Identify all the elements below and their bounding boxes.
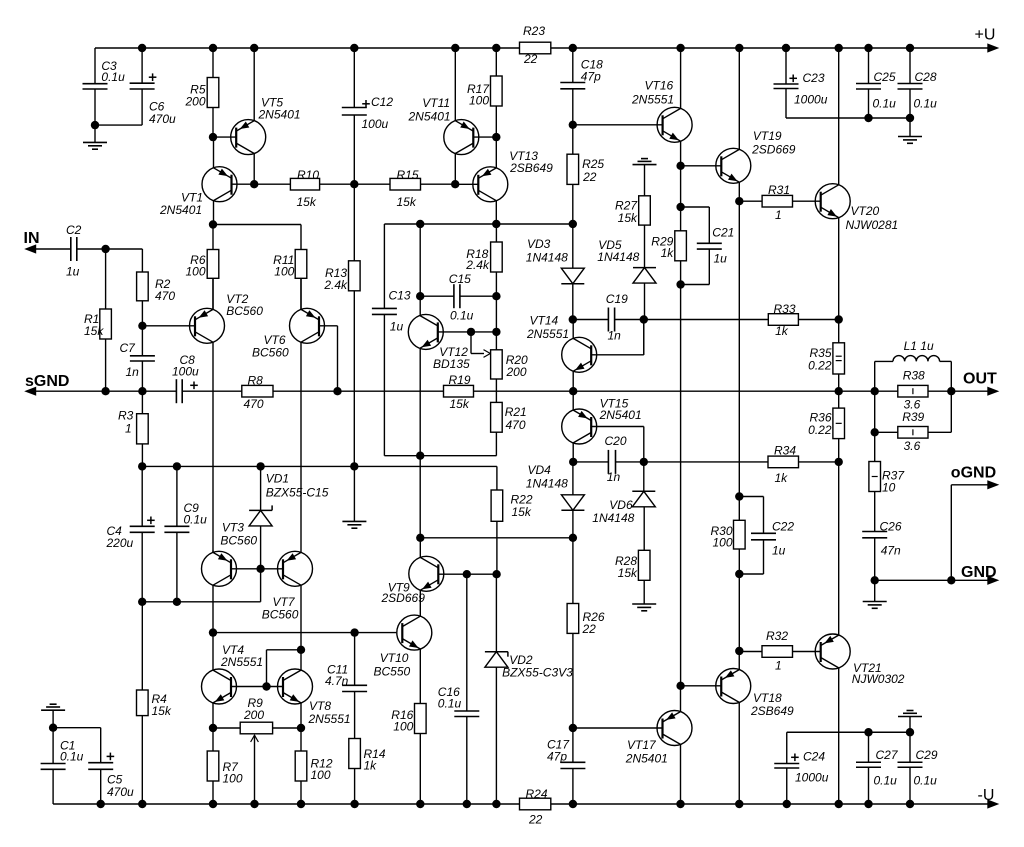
- svg-text:200: 200: [506, 365, 527, 379]
- resistor R8: [242, 374, 273, 412]
- wire VT8 base: [267, 686, 284, 688]
- wire lower mirror line: [213, 632, 396, 634]
- wire VT15 collector down: [572, 443, 574, 462]
- wire R26 bottom: [572, 633, 574, 728]
- svg-text:100u: 100u: [362, 117, 389, 131]
- wire VT11 emitter to rail: [454, 48, 456, 121]
- wire C4 bottom: [141, 532, 143, 602]
- capacitor C12: [342, 95, 394, 131]
- junction -U C24: [783, 800, 791, 808]
- resistor R4: [137, 690, 172, 718]
- wire R39 left leads: [875, 391, 898, 432]
- capacitor C17: [547, 738, 585, 769]
- junction bias VT9/VT12: [416, 534, 424, 542]
- wire VT13 collector down: [495, 201, 497, 224]
- wire VT2 emitter up: [212, 278, 214, 309]
- svg-text:VD4: VD4: [528, 463, 552, 477]
- junction VT17c VT18b: [676, 682, 684, 690]
- junction VT13 collector line: [492, 220, 500, 228]
- svg-text:VD3: VD3: [527, 237, 551, 251]
- wire VD2 bottom: [495, 667, 497, 804]
- svg-text:2N5401: 2N5401: [599, 408, 642, 422]
- junction R30 top C22: [735, 492, 743, 500]
- svg-text:100u: 100u: [172, 365, 199, 379]
- junction rail R5: [209, 44, 217, 52]
- junction R25 VD3 bias-line: [569, 220, 577, 228]
- junction -U C27: [864, 800, 872, 808]
- junction VD3 C19 VT14c: [569, 315, 577, 323]
- wire C17 top: [572, 728, 574, 762]
- wire R6 bottom to VT2: [212, 278, 214, 309]
- svg-text:R3: R3: [118, 409, 134, 423]
- wire R1 bottom to sGND: [105, 339, 107, 391]
- wire VT16 collector to rail: [680, 48, 682, 109]
- junction R34 R36 VT21e: [835, 458, 843, 466]
- svg-text:sGND: sGND: [25, 373, 69, 390]
- svg-text:BC560: BC560: [220, 534, 257, 548]
- svg-text:10: 10: [882, 480, 896, 494]
- wire C1 top to C5: [53, 728, 101, 763]
- junction VT7-VT8 collectors: [297, 646, 305, 654]
- wire C12 top: [353, 48, 355, 108]
- wire VT16 base: [573, 124, 663, 126]
- resistor R23: [520, 24, 551, 66]
- wire VT16e column: [680, 166, 682, 207]
- junction -U C16: [463, 800, 471, 808]
- resistor R39: [898, 410, 928, 453]
- junction gndline C25: [864, 114, 872, 122]
- wire VT19e column down: [738, 201, 740, 496]
- wire VD3 bottom lead: [572, 284, 574, 320]
- junction rail VT20: [835, 44, 843, 52]
- wire C7 bottom: [141, 361, 143, 391]
- junction rail VT19: [735, 44, 743, 52]
- wire VT12 collector: [419, 224, 421, 316]
- svg-text:2SD669: 2SD669: [381, 591, 426, 605]
- resistor R34: [768, 443, 799, 485]
- wire C16 column: [466, 574, 468, 711]
- svg-text:100: 100: [393, 719, 413, 733]
- trimmer wiper arrow R9: [251, 735, 259, 804]
- svg-text:R33: R33: [774, 302, 796, 316]
- wire C5 bottom: [100, 769, 102, 804]
- wire gnd stem mid: [353, 466, 355, 521]
- resistor R21: [491, 402, 527, 432]
- junction VT4e R9 R7: [209, 724, 217, 732]
- wire C6 column: [95, 48, 142, 125]
- transistor VT3: [202, 521, 258, 587]
- capacitor C19: [606, 292, 628, 343]
- junction GND C26: [871, 576, 879, 584]
- wire VT5 collector to rail: [253, 48, 255, 121]
- wire VT3 collector down: [212, 585, 214, 632]
- junction VT9b VD2: [492, 570, 500, 578]
- svg-text:C20: C20: [605, 434, 627, 448]
- ground below R28: [632, 604, 656, 611]
- wire R10-R15 line: [254, 183, 455, 185]
- wire upper bias line: [384, 224, 572, 308]
- junction R2 / C7 / VT2 base: [138, 322, 146, 330]
- capacitor C29: [898, 748, 938, 788]
- svg-text:1k: 1k: [775, 324, 789, 338]
- junction VT18e R32: [735, 647, 743, 655]
- wire VD6 bottom: [643, 507, 645, 551]
- svg-text:VT14: VT14: [530, 313, 559, 327]
- junction C20 VD6 VT15b: [640, 458, 648, 466]
- wire C3 column: [94, 48, 96, 125]
- capacitor C11: [325, 662, 367, 691]
- junction GND oGND riser: [947, 576, 955, 584]
- inverted ground bottom right: [898, 711, 922, 717]
- junction bus VD1: [256, 462, 264, 470]
- wire VT17 base: [573, 727, 663, 729]
- wire C13 bottom: [384, 314, 496, 455]
- svg-text:1k: 1k: [364, 758, 378, 772]
- svg-text:VT8: VT8: [309, 699, 331, 713]
- wire column to VT18e: [738, 574, 740, 651]
- capacitor C1: [41, 739, 84, 770]
- junction C12 column / R10-R15: [350, 180, 358, 188]
- svg-text:BD135: BD135: [433, 357, 470, 371]
- resistor R38: [898, 369, 928, 412]
- capacitor C5: [88, 753, 134, 799]
- svg-text:BZX55-C3V3: BZX55-C3V3: [502, 666, 573, 680]
- svg-text:R10: R10: [297, 168, 319, 182]
- svg-text:OUT: OUT: [963, 371, 997, 388]
- wire VT1 base: [232, 183, 255, 185]
- svg-text:R23: R23: [523, 24, 545, 38]
- wire VT3 emitter up: [212, 551, 214, 553]
- wire R5 bottom to VT1/VT5 node: [212, 108, 214, 138]
- wire VT5 emitter down: [253, 153, 255, 184]
- junction VT5 base / VT1 emitter: [209, 133, 217, 141]
- wire VT4 base: [231, 686, 267, 688]
- wire VT4 emitter down: [212, 703, 214, 728]
- transistor VT1: [159, 167, 237, 217]
- resistor R33: [768, 302, 798, 338]
- wire C17 bottom: [572, 769, 574, 805]
- junction sGND VT6-base: [333, 387, 341, 395]
- junction VT19e R31: [735, 197, 743, 205]
- wire R39 right leads: [928, 391, 951, 432]
- wire C22 bottom tap: [739, 540, 763, 574]
- svg-text:47n: 47n: [881, 544, 901, 558]
- junction VT16e VT19b: [676, 162, 684, 170]
- transistor VT7: [262, 551, 313, 621]
- diode VD5: [597, 238, 656, 283]
- resistor R5: [184, 78, 218, 109]
- transistor VT9: [381, 556, 444, 605]
- wire VT16 emitter: [680, 141, 682, 166]
- junction R30 bottom C22: [735, 570, 743, 578]
- junction VT1 base / R10: [250, 180, 258, 188]
- resistor R37: [869, 462, 905, 495]
- wire R30 top lead: [738, 497, 740, 521]
- capacitor C15: [449, 272, 474, 323]
- wire R29 bottom: [680, 261, 682, 285]
- node OUT arrow: [963, 371, 999, 396]
- junction -U R4: [138, 800, 146, 808]
- diode VD3: [526, 237, 585, 284]
- junction gndline C28: [906, 114, 914, 122]
- wire VD4 top lead: [572, 462, 574, 495]
- wire R35 top lead: [838, 320, 840, 343]
- junction VT1 collector / R6 / R11: [209, 220, 217, 228]
- transistor VT8: [278, 669, 351, 726]
- wire C20-R34 line: [573, 461, 839, 463]
- diode VD6: [592, 491, 655, 525]
- wire R17 bottom: [495, 106, 497, 137]
- junction VT20e R33: [835, 315, 843, 323]
- wire VT14 collector up: [572, 320, 574, 339]
- wire C12 bottom / R13 column: [353, 115, 355, 261]
- junction VT3c-line C11: [350, 628, 358, 636]
- svg-text:1N4148: 1N4148: [592, 511, 634, 525]
- transistor VT6: [252, 308, 325, 359]
- wire C27 bottom: [868, 767, 870, 804]
- wire R27 to VD5: [644, 225, 646, 268]
- junction rail VT11: [451, 44, 459, 52]
- junction VT17 base C17: [569, 724, 577, 732]
- wire C4C9 line to bases riser: [142, 569, 260, 602]
- transistor VT5: [231, 95, 301, 154]
- wire R22 column: [496, 490, 498, 574]
- resistor R24: [520, 787, 551, 827]
- wire VD2 top: [495, 574, 497, 652]
- junction VT3 collector line: [209, 628, 217, 636]
- junction OUT R35 R36: [835, 387, 843, 395]
- wire VT8 emitter down: [300, 703, 302, 728]
- svg-text:0.1u: 0.1u: [60, 750, 84, 764]
- node GND arrow: [961, 564, 999, 585]
- svg-text:BZX55-C15: BZX55-C15: [266, 485, 329, 499]
- junction C1 top: [49, 724, 57, 732]
- svg-text:2.4k: 2.4k: [465, 258, 490, 272]
- resistor R27: [615, 196, 650, 225]
- resistor R30: [710, 520, 745, 549]
- svg-text:2N5401: 2N5401: [258, 107, 301, 121]
- svg-text:15k: 15k: [450, 397, 470, 411]
- capacitor C4: [106, 517, 155, 551]
- ground near C3: [83, 142, 107, 149]
- junction C19 VD5 VT14b: [640, 315, 648, 323]
- transistor VT2: [190, 292, 264, 344]
- svg-text:VT3: VT3: [222, 521, 244, 535]
- wire VT13 emitter up: [495, 137, 497, 168]
- wire igt stem: [909, 717, 911, 733]
- junction OUT VT14/VT15: [569, 387, 577, 395]
- junction -U VD2: [492, 800, 500, 808]
- svg-text:15k: 15k: [397, 195, 417, 209]
- svg-text:R34: R34: [774, 443, 796, 457]
- svg-text:C28: C28: [915, 70, 937, 84]
- junction -U R7: [209, 800, 217, 808]
- svg-text:15k: 15k: [618, 211, 638, 225]
- ground mid: [342, 521, 366, 528]
- resistor R14: [349, 739, 386, 773]
- svg-text:1u: 1u: [714, 251, 728, 265]
- svg-text:VT16: VT16: [645, 79, 674, 93]
- resistor R32: [762, 629, 793, 673]
- svg-text:C7: C7: [120, 341, 137, 355]
- capacitor C2: [66, 223, 82, 279]
- wire C26 bottom: [874, 538, 876, 581]
- wire gnd stem topright: [909, 118, 911, 137]
- resistor R2: [137, 272, 176, 303]
- wire VT14 base: [591, 320, 644, 355]
- resistor R15: [390, 168, 421, 209]
- svg-text:1u: 1u: [390, 320, 404, 334]
- svg-text:1u: 1u: [66, 265, 80, 279]
- svg-text:C13: C13: [389, 288, 411, 302]
- wire ground bus: [142, 466, 497, 490]
- wire VD5 bottom: [644, 283, 646, 319]
- junction sGND C7 R3: [138, 387, 146, 395]
- svg-text:470u: 470u: [107, 785, 134, 799]
- junction C21 top tap: [676, 203, 684, 211]
- svg-text:C12: C12: [371, 95, 393, 109]
- wire C9 bottom: [176, 532, 178, 602]
- svg-text:L1 1u: L1 1u: [904, 339, 934, 353]
- transistor VT17: [625, 711, 692, 766]
- trimmer wiper arrow R20: [471, 332, 490, 358]
- wire R21 bottom: [495, 432, 497, 456]
- resistor R16: [391, 704, 426, 734]
- transistor VT4: [202, 643, 264, 704]
- resistor R22: [491, 490, 533, 521]
- wire C25 top: [868, 48, 870, 84]
- wire VD3 top lead: [572, 224, 574, 268]
- wire VT11 base: [473, 136, 496, 138]
- wire VT6 emitter up: [300, 278, 302, 309]
- wire VT17 collector up: [680, 686, 682, 712]
- resistor R13: [323, 261, 360, 292]
- capacitor C21: [697, 225, 735, 265]
- svg-text:1N4148: 1N4148: [526, 250, 568, 264]
- capacitor C9: [164, 501, 207, 532]
- transistor VT20: [815, 184, 898, 232]
- svg-text:2N5551: 2N5551: [220, 655, 263, 669]
- wire VT9 emitter down: [419, 590, 421, 616]
- junction C9 line: [173, 598, 181, 606]
- junction C18 R25 VT16-base: [569, 121, 577, 129]
- svg-text:VT20: VT20: [851, 204, 880, 218]
- transistor VT10: [374, 615, 432, 679]
- svg-text:2.4k: 2.4k: [323, 278, 348, 292]
- wire C25 bottom: [868, 89, 870, 118]
- resistor R36: [808, 408, 844, 439]
- svg-text:VT10: VT10: [380, 651, 409, 665]
- wire C9 top: [176, 466, 178, 526]
- capacitor C3: [83, 59, 126, 89]
- junction -U R9 wiper: [250, 800, 258, 808]
- capacitor C27: [856, 748, 899, 788]
- svg-text:IN: IN: [24, 230, 40, 247]
- svg-text:2N5401: 2N5401: [408, 110, 451, 124]
- wire VT21 collector down: [838, 668, 840, 804]
- wire C23 bottom: [786, 89, 910, 119]
- junction VT15c C20: [569, 458, 577, 466]
- svg-text:R32: R32: [766, 629, 788, 643]
- inverted ground R27: [633, 159, 657, 165]
- wire C24 bottom: [786, 768, 788, 804]
- svg-text:15k: 15k: [512, 505, 532, 519]
- node IN arrow: [24, 230, 40, 253]
- wire mid sGND-OUT line: [34, 390, 987, 392]
- wire C1 gnd stem: [52, 710, 54, 728]
- capacitor C18: [560, 58, 603, 89]
- transistor VT18: [716, 669, 794, 718]
- svg-text:1: 1: [775, 208, 782, 222]
- svg-text:R38: R38: [903, 369, 925, 383]
- node -U arrow: [978, 787, 1000, 809]
- wire C4 top: [141, 466, 143, 526]
- svg-text:VT7: VT7: [273, 595, 296, 609]
- svg-text:C25: C25: [874, 70, 896, 84]
- wire R14 bottom: [354, 769, 356, 805]
- wire R26 top: [572, 538, 574, 604]
- capacitor C6: [130, 73, 176, 126]
- wire R37 to C26: [874, 492, 876, 532]
- junction VT3/VT7 bases: [256, 565, 264, 573]
- svg-text:100: 100: [712, 536, 732, 550]
- wire R7 top: [212, 728, 214, 751]
- capacitor C8: [172, 353, 199, 403]
- wire VD4 bottom lead: [572, 510, 574, 538]
- svg-text:1k: 1k: [775, 471, 789, 485]
- junction rail VT5: [250, 44, 258, 52]
- svg-text:GND: GND: [961, 564, 997, 581]
- wire VT7 base: [261, 568, 284, 570]
- svg-text:2N5551: 2N5551: [631, 92, 674, 106]
- transistor VT12: [408, 314, 470, 370]
- wire VT4 collector up: [212, 633, 214, 671]
- wire R25 bottom: [572, 184, 574, 224]
- wire R20-R21: [495, 379, 497, 402]
- svg-text:C23: C23: [803, 71, 825, 85]
- svg-text:VT11: VT11: [422, 96, 450, 110]
- wire VT18 emitter up: [738, 651, 740, 670]
- wire VT19 base: [681, 165, 722, 167]
- junction gnd bus R13: [350, 462, 358, 470]
- resistor R19: [444, 373, 474, 411]
- wire C27 top: [868, 732, 870, 762]
- resistor R3: [118, 409, 148, 444]
- wire VT7 collector down: [300, 585, 302, 650]
- node sGND arrow: [24, 373, 69, 396]
- svg-text:C21: C21: [712, 225, 734, 239]
- svg-text:100: 100: [223, 772, 243, 786]
- junction bus C9: [173, 462, 181, 470]
- svg-text:1000u: 1000u: [794, 93, 828, 107]
- svg-text:VT17: VT17: [627, 738, 657, 752]
- transistor VT21: [815, 634, 905, 686]
- wire VT21 emitter up: [838, 462, 840, 635]
- wire gnd stem out: [874, 580, 876, 601]
- svg-text:0.22: 0.22: [808, 358, 832, 372]
- transistor VT11: [408, 96, 479, 155]
- svg-text:R31: R31: [768, 183, 790, 197]
- wire C1 leads: [52, 728, 54, 804]
- svg-text:C2: C2: [66, 223, 82, 237]
- svg-text:22: 22: [528, 813, 543, 827]
- transistor VT15: [562, 396, 642, 444]
- junction C24line C27: [864, 728, 872, 736]
- wire C29 bottom: [909, 767, 911, 804]
- svg-text:VT18: VT18: [753, 691, 782, 705]
- svg-text:0.22: 0.22: [808, 423, 832, 437]
- capacitor C28: [898, 70, 938, 110]
